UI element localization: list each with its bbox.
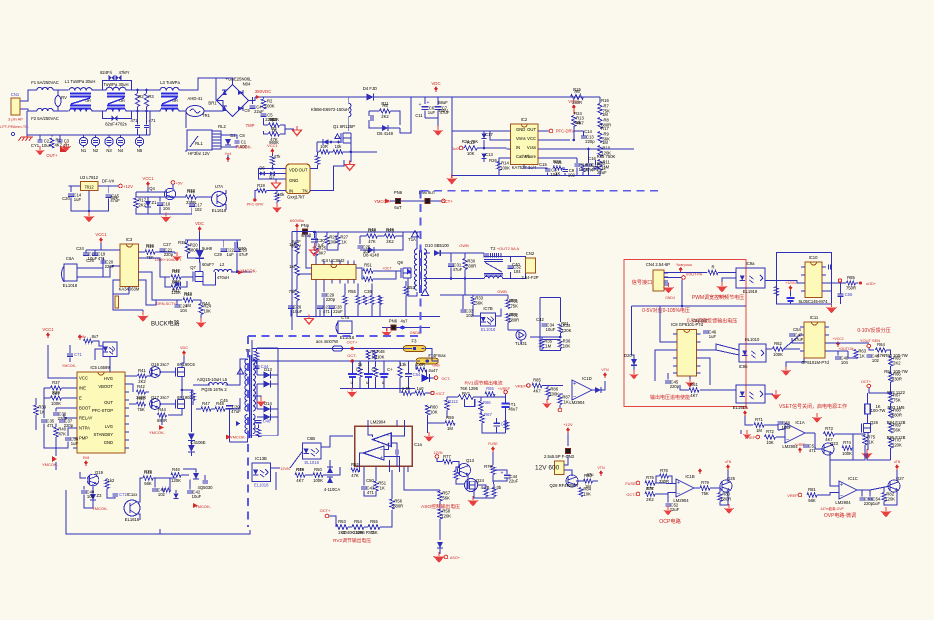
svg-text:C42: C42 [536,317,544,322]
svg-text:104: 104 [87,494,95,499]
svg-text:uTN: uTN [742,406,749,410]
svg-text:10uF: 10uF [192,494,202,499]
svg-text:82uF: 82uF [105,122,115,127]
svg-text:PN6: PN6 [394,190,403,195]
svg-text:HF3far 12V: HF3far 12V [188,151,210,156]
svg-text:C50: C50 [366,478,374,483]
svg-text:6L05C145-M74: 6L05C145-M74 [799,299,829,304]
svg-text:R4: R4 [271,126,277,131]
svg-text:471: 471 [367,490,375,495]
svg-text:1K: 1K [869,440,874,445]
svg-text:YMCOK-: YMCOK- [149,430,166,435]
svg-text:Q19: Q19 [95,470,104,475]
svg-text:22uF: 22uF [509,479,519,484]
svg-text:VTN: VTN [601,368,609,372]
svg-text:R64: R64 [877,342,885,347]
svg-text:10R: 10R [320,144,328,149]
svg-text:IC1xx: IC1xx [127,492,139,497]
svg-text:VDD: VDD [289,168,298,173]
svg-text:450V: 450V [438,108,448,113]
svg-text:12V 600: 12V 600 [535,465,560,472]
svg-text:1uF: 1uF [873,501,881,506]
svg-text:1uF: 1uF [71,441,79,446]
svg-text:C7a: C7a [341,315,349,320]
svg-text:C25: C25 [86,258,94,263]
svg-text:1M: 1M [756,428,762,433]
svg-text:U3 L7812: U3 L7812 [80,175,99,180]
svg-text:R65: R65 [486,386,494,391]
svg-text:100-7W: 100-7W [871,408,886,413]
svg-text:+: + [677,481,681,487]
svg-text:GND: GND [516,127,525,132]
svg-text:104: 104 [841,360,849,365]
svg-text:R61: R61 [690,382,698,387]
svg-text:471: 471 [47,423,55,428]
svg-text:102: 102 [158,492,166,497]
svg-text:IC1C: IC1C [848,476,858,481]
svg-text:R: R [711,265,714,270]
svg-text:+OUT2 5A A: +OUT2 5A A [497,246,520,251]
svg-text:10K: 10K [203,309,211,314]
svg-text:10K: 10K [583,492,591,497]
svg-text:U7A: U7A [215,184,223,189]
svg-text:VCC1: VCC1 [568,99,580,104]
svg-text:R53: R53 [338,519,346,524]
svg-text:IC11: IC11 [810,315,819,320]
svg-text:6R190C6: 6R190C6 [177,362,195,367]
svg-text:C9: C9 [244,108,250,113]
svg-text:TMP: TMP [246,123,255,128]
svg-text:47k: 47k [274,154,282,159]
svg-text:102: 102 [872,358,880,363]
svg-text:56K: 56K [808,498,816,503]
svg-text:R90 100-7W: R90 100-7W [884,353,908,358]
svg-text:R16: R16 [601,98,609,103]
svg-text:R91 100-7W: R91 100-7W [884,369,908,374]
svg-text:D20: D20 [624,353,632,358]
svg-text:Z1: Z1 [152,200,158,205]
svg-text:R78: R78 [660,468,668,473]
svg-text:1K: 1K [342,240,347,245]
svg-text:GWB: GWB [459,243,469,248]
svg-text:R112: R112 [448,399,458,404]
svg-text:N4: N4 [118,148,124,153]
svg-text:104: 104 [163,206,171,211]
svg-text:VSET信号关闭，启电电源工作: VSET信号关闭，启电电源工作 [779,403,847,410]
svg-text:R47: R47 [202,401,210,406]
svg-text:L2: L2 [220,262,225,267]
svg-text:68uF: 68uF [438,100,448,105]
svg-text:471: 471 [131,118,139,123]
svg-text:GRB: GRB [432,364,440,368]
svg-text:GP8101M-P7d: GP8101M-P7d [801,360,829,365]
svg-text:LVG: LVG [105,424,113,429]
svg-text:C36: C36 [364,289,372,294]
svg-text:R78: R78 [296,467,304,472]
svg-text:R52: R52 [351,462,359,467]
svg-text:HVG: HVG [104,376,113,381]
svg-text:R70: R70 [144,469,152,474]
svg-text:1M: 1M [602,140,608,145]
svg-text:1M: 1M [602,112,608,117]
svg-text:OCT-: OCT- [441,377,451,381]
svg-text:1uF: 1uF [226,252,234,257]
svg-text:+12V: +12V [563,422,573,427]
svg-text:8x7: 8x7 [92,334,99,339]
svg-text:2K2: 2K2 [893,361,901,366]
svg-text:R19: R19 [257,183,265,188]
svg-text:Q1 6R125P: Q1 6R125P [333,124,355,129]
svg-text:680R: 680R [393,504,403,509]
svg-text:R55: R55 [348,289,356,294]
svg-text:VREF: VREF [787,494,798,498]
svg-text:47uF: 47uF [453,267,463,272]
svg-text:IC9b: IC9b [739,364,749,369]
svg-text:IC5 L6599: IC5 L6599 [90,365,110,370]
svg-text:RL2: RL2 [218,124,226,129]
svg-text:R71: R71 [755,417,763,422]
svg-text:R26: R26 [489,158,497,163]
svg-text:+12VN: +12VN [785,281,796,285]
svg-text:OCT-: OCT- [626,493,636,497]
svg-text:47K: 47K [58,432,66,437]
svg-text:EL1919: EL1919 [743,289,758,294]
svg-text:4702s: 4702s [115,122,126,127]
svg-text:N04: N04 [243,82,251,87]
svg-text:uH: uH [119,98,124,103]
svg-text:C29: C29 [214,252,222,257]
svg-text:R73: R73 [825,426,833,431]
svg-text:A3Q15-10uH L5: A3Q15-10uH L5 [197,377,228,382]
svg-text:C40: C40 [512,262,520,267]
svg-text:AHD-41: AHD-41 [188,96,204,101]
svg-text:VCC1: VCC1 [142,176,154,181]
svg-text:BUCK电路: BUCK电路 [151,319,180,327]
svg-text:Q13: Q13 [466,458,475,463]
svg-text:47K: 47K [585,168,593,173]
svg-text:100K: 100K [265,104,275,109]
svg-text:C13: C13 [485,152,493,157]
svg-text:HL1010: HL1010 [745,337,760,342]
svg-text:1M: 1M [289,242,295,247]
svg-text:75k: 75k [289,289,297,294]
svg-text:C14: C14 [584,129,592,134]
svg-text:C15: C15 [539,162,547,167]
svg-text:IC9a: IC9a [746,261,756,266]
svg-text:2.5x5.5P F-CN3: 2.5x5.5P F-CN3 [544,454,575,459]
svg-text:Z3: Z3 [97,493,103,498]
svg-text:147m距离-OVP: 147m距离-OVP [820,506,844,511]
svg-text:1-0k: 1-0k [402,386,411,391]
svg-text:6-PT-PE6mm-TC-: 6-PT-PE6mm-TC- [0,125,30,129]
svg-text:D13: D13 [264,367,272,372]
svg-text:Vcss: Vcss [527,145,536,150]
svg-text:1K: 1K [40,410,45,415]
svg-text:6uT: 6uT [394,205,402,210]
svg-text:R85: R85 [533,377,541,382]
svg-text:EL1018: EL1018 [63,283,78,288]
svg-text:102: 102 [466,313,474,318]
svg-text:VCC1: VCC1 [42,327,54,332]
svg-text:OCT-: OCT- [347,353,357,358]
svg-text:CN4 2.54-6P: CN4 2.54-6P [646,262,670,267]
svg-text:Q4: Q4 [149,186,155,191]
svg-text:1K: 1K [380,486,385,491]
svg-text:OCT+: OCT+ [861,380,872,384]
svg-text:22uF: 22uF [597,170,607,175]
svg-text:LM2904: LM2904 [569,400,585,405]
svg-text:4Q5030: 4Q5030 [198,485,214,490]
svg-text:R41: R41 [138,368,146,373]
svg-text:EL1616: EL1616 [212,208,227,213]
svg-text:1uF: 1uF [709,334,717,339]
svg-text:YMCOK-: YMCOK- [235,145,252,150]
svg-text:GND: GND [289,178,298,183]
svg-text:10K: 10K [430,410,438,415]
svg-text:4K7: 4K7 [318,251,326,256]
svg-text:+: + [501,471,504,477]
svg-text:10K: 10K [377,354,385,359]
svg-text:INE: INE [79,386,86,391]
svg-text:1K: 1K [555,171,560,176]
svg-text:47K: 47K [351,473,359,478]
svg-text:PFC-DRV: PFC-DRV [247,202,264,206]
svg-text:10K: 10K [467,151,475,156]
svg-text:C8: C8 [239,133,245,138]
svg-text:380VDC: 380VDC [255,89,272,94]
svg-text:C24: C24 [76,246,84,251]
svg-text:R62: R62 [774,341,782,346]
svg-text:FUSE: FUSE [488,442,498,446]
svg-text:VCC1: VCC1 [267,143,278,148]
svg-text:10k: 10k [278,192,286,197]
svg-text:IC7B: IC7B [483,306,493,311]
svg-text:D14: D14 [264,401,272,406]
svg-text:3 pin AP: 3 pin AP [8,117,23,122]
svg-text:+5V: +5V [176,180,184,185]
svg-text:4K7: 4K7 [533,389,541,394]
svg-text:47u: 47u [587,472,595,477]
svg-text:13k: 13k [400,362,408,367]
svg-text:PNp: PNp [301,223,310,228]
svg-text:R24: R24 [574,111,582,116]
svg-text:22uF: 22uF [333,309,343,314]
svg-text:GWB: GWB [497,289,507,294]
svg-text:47uF: 47uF [239,252,249,257]
svg-text:T1A: T1A [408,237,416,242]
svg-text:uOD+: uOD+ [866,282,877,286]
svg-text:5uH8: 5uH8 [202,246,213,251]
svg-text:104: 104 [180,308,188,313]
svg-text:10uF: 10uF [293,309,303,314]
svg-text:OVP电路-微调: OVP电路-微调 [824,512,856,519]
svg-text:100K: 100K [842,451,852,456]
svg-text:R17: R17 [601,126,609,131]
svg-text:120K: 120K [562,328,572,333]
svg-text:7812: 7812 [84,185,94,190]
svg-text:1uF: 1uF [317,243,325,248]
svg-text:100K: 100K [500,166,510,171]
svg-text:R79: R79 [484,464,492,469]
svg-text:PWM调宽控制频节电压: PWM调宽控制频节电压 [692,294,744,301]
svg-text:IN: IN [289,189,293,194]
svg-text:−: − [786,438,790,444]
svg-text:TuWPa 30uH: TuWPa 30uH [104,82,129,87]
svg-text:22uF: 22uF [105,264,115,269]
svg-text:LM2904: LM2904 [370,420,386,425]
svg-text:102: 102 [363,249,371,254]
svg-text:C64: C64 [413,372,421,377]
svg-text:C4106E: C4106E [190,440,205,445]
svg-text:12VN: 12VN [434,451,443,455]
svg-text:220p: 220p [585,139,595,144]
svg-text:OCT+: OCT+ [441,199,453,204]
svg-text:输出电压追电使能: 输出电压追电使能 [650,394,690,401]
svg-text:R30: R30 [597,161,605,166]
svg-text:R41: R41 [172,288,180,293]
svg-text:R18 750K: R18 750K [597,154,616,159]
svg-text:2K2: 2K2 [386,239,394,244]
svg-text:F1 5A/250VAC: F1 5A/250VAC [31,80,59,85]
svg-text:L1 TuWPa 30uH: L1 TuWPa 30uH [65,79,96,84]
svg-text:Q26: Q26 [870,420,879,425]
svg-text:PFC-STOP: PFC-STOP [92,408,113,413]
svg-text:EL1018: EL1018 [254,482,269,487]
svg-text:680R: 680R [509,318,519,323]
svg-text:R38: R38 [178,240,186,245]
svg-text:R66: R66 [483,400,491,405]
svg-text:56K: 56K [475,301,483,306]
svg-text:120K: 120K [441,514,451,519]
svg-text:4-7B: 4-7B [481,485,490,490]
svg-text:R54: R54 [354,519,362,524]
svg-text:R85: R85 [847,275,855,280]
svg-text:OCP电路: OCP电路 [659,517,681,525]
svg-text:+: + [840,483,844,489]
svg-text:Q7: Q7 [190,265,196,270]
svg-text:R36: R36 [146,243,154,248]
svg-text:C6A: C6A [66,256,74,261]
svg-text:100K: 100K [51,401,61,406]
svg-text:RV2调节输出电压: RV2调节输出电压 [333,537,371,544]
svg-text:OUT: OUT [104,400,113,405]
svg-text:C21: C21 [110,195,118,200]
svg-text:Q9: Q9 [397,260,403,265]
svg-text:47kFr: 47kFr [119,70,130,75]
svg-text:12VN: 12VN [280,467,290,471]
svg-text:RELAY: RELAY [79,416,93,421]
svg-text:C71: C71 [74,352,82,357]
svg-text:R76: R76 [646,475,654,480]
svg-text:Gxxj17kT: Gxxj17kT [287,195,305,200]
svg-text:7N: 7N [302,189,307,194]
svg-text:C1a: C1a [414,442,422,447]
svg-text:VDC: VDC [195,221,204,226]
svg-text:10uF: 10uF [782,425,792,430]
svg-text:2K2: 2K2 [646,497,654,502]
svg-text:+OCT: +OCT [382,267,391,271]
svg-text:C56: C56 [845,292,853,297]
svg-text:680R: 680R [721,497,731,502]
svg-text:46u7: 46u7 [508,407,518,412]
svg-text:1k2: 1k2 [108,478,115,483]
svg-text:75K: 75K [701,491,709,496]
svg-text:10k: 10k [335,144,343,149]
svg-text:100K: 100K [773,352,783,357]
svg-text:TR1: TR1 [202,113,211,118]
svg-text:R93 1M6: R93 1M6 [888,405,906,410]
svg-text:47uF: 47uF [794,337,804,342]
svg-text:R67: R67 [484,412,492,417]
svg-text:CN2: CN2 [526,251,535,256]
svg-text:750R: 750R [846,286,856,291]
svg-text:Kl656-E6972-150uH: Kl656-E6972-150uH [311,107,349,112]
svg-text:GRN-SCTY: GRN-SCTY [156,302,176,306]
svg-text:−: − [387,434,390,440]
svg-text:EL1616: EL1616 [125,517,140,522]
svg-text:GNDA: GNDA [410,331,421,335]
svg-text:+: + [308,235,311,241]
svg-text:D4 FJD: D4 FJD [363,86,377,91]
svg-text:330R: 330R [659,479,669,484]
svg-text:75K: 75K [893,398,901,403]
svg-text:IC13B: IC13B [255,456,267,461]
svg-text:F3: F3 [412,339,418,344]
svg-text:CY1: CY1 [31,143,40,148]
svg-text:信号接口: 信号接口 [632,278,653,286]
svg-text:56K: 56K [442,496,450,501]
svg-text:#74Fmax: #74Fmax [428,353,446,358]
svg-text:4u7: 4u7 [401,319,409,324]
svg-text:STANDBY: STANDBY [94,432,114,437]
svg-text:OUT: OUT [299,168,308,173]
svg-text:R2: R2 [138,94,144,99]
svg-text:104: 104 [514,269,522,274]
svg-text:4-110CA: 4-110CA [324,487,340,492]
svg-text:R74: R74 [843,440,851,445]
svg-text:C6B: C6B [307,436,315,441]
svg-text:R21 75K: R21 75K [462,139,479,144]
svg-text:L3 TuWPa: L3 TuWPa [160,80,180,85]
svg-text:Q17 2sc?: Q17 2sc? [151,395,170,400]
svg-text:R61: R61 [561,321,569,326]
svg-text:DF-V#: DF-V# [102,179,115,184]
svg-text:IC3: IC3 [126,237,133,242]
svg-text:R3: R3 [148,94,154,99]
svg-text:R43: R43 [184,291,192,296]
svg-text:680R: 680R [892,413,902,418]
svg-text:IN: IN [516,145,520,150]
svg-text:IC1A: IC1A [795,420,805,425]
svg-text:R51: R51 [364,263,372,268]
svg-text:R59: R59 [509,312,517,317]
svg-text:R33: R33 [187,188,195,193]
svg-text:330R: 330R [892,377,902,382]
svg-text:OUT: OUT [527,127,536,132]
svg-text:100K: 100K [313,478,323,483]
svg-text:56K: 56K [893,428,901,433]
svg-text:R48: R48 [368,227,376,232]
svg-text:Vcore: Vcore [525,154,537,159]
svg-text:+: + [380,455,383,461]
svg-text:C20: C20 [62,196,70,201]
svg-text:R44: R44 [158,407,166,412]
svg-text:1K: 1K [564,400,569,405]
svg-text:R72: R72 [766,429,774,434]
svg-text:BOOT: BOOT [79,406,91,411]
svg-text:220p: 220p [670,384,680,389]
svg-text:IC4 UC3842: IC4 UC3842 [321,258,345,263]
